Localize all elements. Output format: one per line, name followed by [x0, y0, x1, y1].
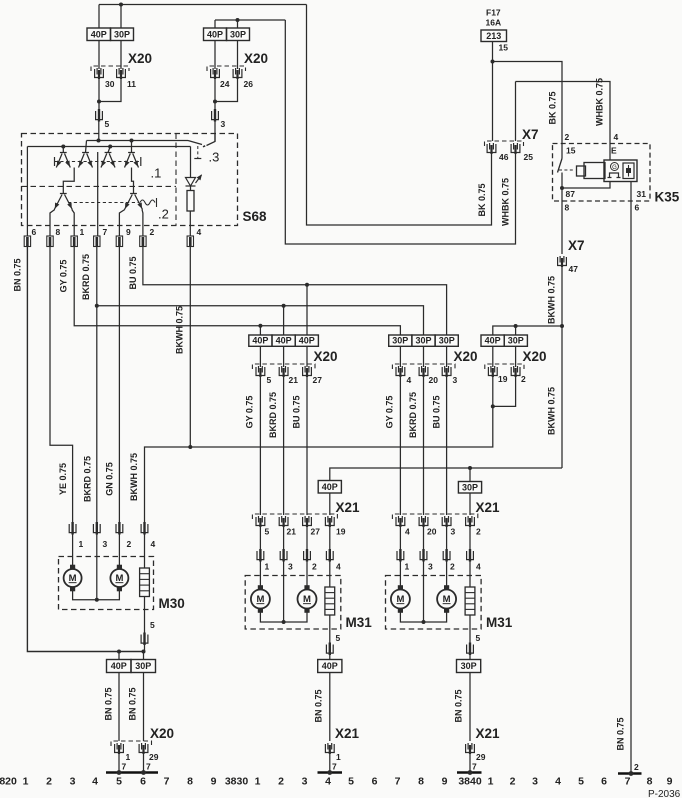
wire BKRD 0.75 from S68.7 to M30.3 (line A) [96, 247, 98, 525]
svg-text:6: 6 [635, 203, 640, 213]
connector X20 pins 4 20 3 [392, 364, 455, 369]
S68 plug pin 6 [24, 236, 30, 247]
svg-text:30P: 30P [415, 336, 431, 346]
junction S68.7 branch [95, 304, 99, 308]
connector code 40P below M31 [329, 655, 331, 660]
svg-text:40P: 40P [91, 29, 107, 39]
svg-text:BN 0.75: BN 0.75 [314, 689, 324, 722]
connector X21 pins 4 20 3 2 [392, 514, 477, 519]
svg-text:2: 2 [312, 562, 317, 572]
wire line C drop to 40P [306, 285, 308, 335]
svg-text:6: 6 [140, 776, 146, 788]
wire X20.11 down and left [99, 79, 121, 102]
svg-text:40P: 40P [322, 661, 338, 671]
S68 switch contact cell 2 [86, 141, 87, 153]
svg-text:30P: 30P [439, 336, 455, 346]
svg-text:4: 4 [407, 375, 412, 385]
svg-text:40P: 40P [299, 336, 315, 346]
svg-text:1: 1 [23, 776, 29, 788]
mirror motor assembly M30 box [59, 557, 154, 610]
S68 selector spring squiggle [140, 198, 157, 207]
svg-text:BKWH 0.75: BKWH 0.75 [547, 387, 557, 435]
svg-text:27: 27 [313, 375, 323, 385]
wire BKRD 0.75 X20.21 to X21.21 [283, 377, 285, 515]
connector code 30P [227, 28, 250, 41]
svg-text:9: 9 [211, 776, 217, 788]
svg-text:1: 1 [488, 776, 494, 788]
wire bus to pin 6 [26, 147, 28, 237]
junction pins 19/2 [491, 404, 495, 408]
svg-text:5: 5 [336, 633, 341, 643]
wire BN 0.75 from S68.6 to ground bus [27, 247, 143, 652]
connector code 40P below M30 [107, 660, 132, 673]
svg-text:BK 0.75: BK 0.75 [548, 91, 558, 124]
svg-text:1: 1 [405, 562, 410, 572]
svg-text:1: 1 [336, 752, 341, 762]
wires X21 to M31 terminals [399, 527, 401, 551]
svg-text:M: M [303, 594, 311, 605]
svg-text:7: 7 [122, 762, 127, 772]
svg-text:7: 7 [332, 762, 337, 772]
wire BN 0.75 K35.31 to ground [630, 201, 632, 774]
svg-text:1: 1 [255, 776, 261, 788]
svg-text:40P: 40P [207, 29, 223, 39]
wire BN 0.75 M31 to X21.29 [469, 673, 471, 742]
wire heater to terminal 5 [144, 597, 146, 635]
S68 selector contact left (.2) [54, 194, 72, 210]
junction mirror select feed [560, 324, 564, 328]
junction fuse output [491, 60, 495, 64]
svg-text:6: 6 [372, 776, 378, 788]
svg-text:5: 5 [150, 620, 155, 630]
svg-text:21: 21 [289, 375, 299, 385]
S68 cell4 emitter link [132, 168, 134, 194]
svg-text:M: M [115, 573, 123, 584]
svg-text:2: 2 [150, 227, 155, 237]
svg-text:9: 9 [126, 227, 131, 237]
svg-text:4: 4 [197, 227, 202, 237]
svg-text:30P: 30P [392, 336, 408, 346]
svg-text:7: 7 [625, 776, 631, 788]
wire K35 E into pump unit [609, 144, 611, 161]
wire to ground bus junction [144, 645, 146, 652]
junction on rail [119, 3, 123, 7]
svg-text:5: 5 [116, 776, 122, 788]
svg-text:30P: 30P [461, 661, 477, 671]
wire X7.25 feed: up to ignition rail [285, 20, 515, 244]
svg-text:6: 6 [32, 227, 37, 237]
M31 motor common bus [260, 609, 307, 623]
junction line A to X20.21 [282, 304, 286, 308]
junction on rail 2 [236, 18, 240, 22]
svg-text:BU 0.75: BU 0.75 [128, 256, 138, 289]
K35 solenoid [577, 163, 606, 179]
svg-text:X7: X7 [568, 238, 585, 253]
svg-text:4: 4 [151, 539, 156, 549]
svg-text:7: 7 [395, 776, 401, 788]
wire 30P to X20 pin 11 [120, 41, 122, 70]
svg-text:WHBK 0.75: WHBK 0.75 [501, 178, 511, 226]
svg-text:5: 5 [578, 776, 584, 788]
mirror motor assembly M31 box [245, 576, 341, 630]
svg-text:5: 5 [348, 776, 354, 788]
svg-text:46: 46 [499, 152, 509, 162]
S68 illumination LED [190, 147, 192, 178]
svg-text:BKRD 0.75: BKRD 0.75 [268, 392, 278, 438]
K35 pump unit box [604, 160, 637, 182]
svg-text:11: 11 [127, 79, 136, 89]
svg-text:87: 87 [566, 189, 576, 199]
svg-text:BN 0.75: BN 0.75 [104, 687, 114, 720]
svg-text:40P: 40P [276, 336, 292, 346]
wire pump unit to terminal 87 [562, 182, 610, 189]
svg-text:5: 5 [265, 527, 270, 537]
svg-text:30: 30 [105, 79, 115, 89]
connector code 40P [295, 335, 318, 346]
wire BU 0.75 X20.3 to X21.3 [446, 377, 448, 515]
svg-text:M: M [69, 573, 77, 584]
svg-text:4: 4 [325, 776, 331, 788]
S68 supply bus from pin 5 [87, 140, 189, 142]
svg-text:3830: 3830 [225, 776, 249, 788]
svg-text:3: 3 [70, 776, 76, 788]
svg-text:S68: S68 [243, 209, 268, 224]
wire GY 0.75 from S68.1 (line B) [74, 247, 400, 336]
junction pin5 on bus [97, 139, 101, 143]
S68 internal partition vertical [175, 134, 177, 226]
wire right selector to pin 2 [141, 210, 144, 237]
S68 illumination resistor [187, 191, 194, 212]
svg-text:BN 0.75: BN 0.75 [454, 689, 464, 722]
svg-text:29: 29 [149, 752, 159, 762]
svg-text:2: 2 [127, 539, 132, 549]
junction line B to X20.5 [258, 324, 262, 328]
wire battery rail to X20 30/11 [99, 4, 307, 6]
wire BU 0.75 X20.27 to X21.27 [306, 377, 308, 515]
svg-text:30P: 30P [508, 336, 524, 346]
svg-text:4: 4 [476, 562, 481, 572]
svg-text:M30: M30 [159, 596, 185, 611]
svg-text:1: 1 [80, 227, 85, 237]
svg-text:GY 0.75: GY 0.75 [245, 396, 255, 429]
svg-text:4: 4 [555, 776, 561, 788]
S68 .3 heated-mirror contact [188, 141, 202, 145]
S68 internal partition horizontal [22, 185, 177, 187]
M30 motor 1 [64, 565, 82, 592]
wire splice to S68 pin 5 [98, 122, 100, 141]
wire fuse to K35 pin 15 (BK 0.75) [493, 62, 563, 144]
svg-text:19: 19 [498, 374, 508, 384]
wire to ground [329, 754, 331, 773]
wire left selector to pin 1 [72, 210, 74, 237]
wires 40P boxes to X20 pins [259, 346, 261, 367]
wire X7.46 feed: up right side to battery rail [307, 5, 492, 226]
connector code 30P [435, 335, 458, 346]
svg-text:2: 2 [46, 776, 52, 788]
S68 plug pin 9 [116, 236, 122, 247]
M31 motor 2 [437, 585, 456, 613]
svg-text:BKWH 0.75: BKWH 0.75 [547, 276, 557, 324]
svg-text:M31: M31 [346, 615, 373, 630]
S68 plug pin 7 [94, 236, 100, 247]
connector code 30P below M30 [131, 660, 156, 673]
svg-text:30P: 30P [114, 29, 130, 39]
svg-text:1: 1 [126, 752, 131, 762]
svg-text:GY 0.75: GY 0.75 [59, 260, 69, 293]
M31 motor 2 [298, 585, 317, 613]
connector X20 pins 1 and 29 [111, 741, 152, 746]
connector pin X21.1 [325, 743, 334, 754]
S68 selector link dashed [68, 202, 139, 204]
svg-text:X20: X20 [150, 726, 174, 741]
K35 generator symbol G [608, 163, 621, 178]
wire line A drop to 40P [283, 306, 285, 335]
svg-text:X21: X21 [476, 500, 501, 515]
junction ground bus to 30P [142, 650, 146, 654]
svg-text:X7: X7 [522, 127, 539, 142]
M31 motor common bus [400, 609, 446, 623]
svg-text:31: 31 [637, 189, 647, 199]
junction pins 30/11 [97, 100, 101, 104]
M30 motor common bus [73, 587, 120, 600]
line A to X20 group [97, 306, 424, 335]
svg-text:8: 8 [187, 776, 193, 788]
svg-text:30P: 30P [462, 482, 478, 492]
svg-text:26: 26 [244, 79, 254, 89]
fuse F17 16A [481, 8, 508, 53]
svg-text:3: 3 [221, 119, 226, 129]
svg-text:7: 7 [164, 776, 170, 788]
K35 actuator dashed link [559, 169, 575, 171]
S68 plug pin 2 [140, 236, 146, 247]
wire X20.2 down and left [493, 377, 516, 406]
connector code 30P [412, 335, 435, 346]
svg-text:9: 9 [442, 776, 448, 788]
svg-text:3: 3 [428, 562, 433, 572]
S68 switch contact cell 4 [131, 141, 133, 153]
junction common [422, 620, 426, 624]
svg-text:X20: X20 [523, 349, 547, 364]
wire YE 0.75 from S68.8 to M30.1 [50, 247, 73, 525]
M30 heater element [140, 568, 150, 597]
S68 return bus to pin 6 [27, 146, 190, 148]
wire X20.30 down [98, 79, 100, 102]
connector code 30P below M31 [469, 655, 471, 660]
svg-text:2: 2 [634, 762, 639, 772]
junction to 30P [514, 324, 518, 328]
svg-text:4: 4 [336, 562, 341, 572]
svg-text:20: 20 [429, 375, 439, 385]
svg-text:4: 4 [614, 132, 619, 142]
svg-text:5: 5 [476, 633, 481, 643]
svg-text:GY 0.75: GY 0.75 [385, 396, 395, 429]
junction to right X21 [468, 466, 472, 470]
junction cell1 [61, 145, 65, 149]
K35 switch contact [561, 144, 563, 159]
svg-text:7: 7 [146, 762, 151, 772]
svg-text:X20: X20 [128, 51, 152, 66]
wire rail2 to 30P box [237, 20, 239, 28]
svg-text:BKRD 0.75: BKRD 0.75 [81, 254, 91, 300]
svg-text:25: 25 [524, 152, 534, 162]
wire GY 0.75 X20.4 to X21.4 [399, 377, 401, 515]
wires 30P boxes to X20 pins [399, 346, 401, 367]
wire X20.19 down [492, 377, 494, 406]
S68 plug pin 4 [187, 236, 193, 247]
svg-text:7: 7 [103, 227, 108, 237]
svg-text:.2: .2 [158, 207, 169, 222]
svg-text:8: 8 [565, 203, 570, 213]
S68 plug pin 8 [47, 236, 53, 247]
M31 motor 1 [251, 585, 270, 613]
svg-text:X20: X20 [244, 51, 268, 66]
connector code 40P [481, 335, 504, 346]
splice plug 5 [98, 102, 100, 112]
svg-text:3: 3 [103, 539, 108, 549]
M31 motor 1 [391, 585, 410, 613]
connector code 30P at X21.2 [458, 482, 481, 494]
junction common [95, 598, 99, 602]
svg-text:2: 2 [278, 776, 284, 788]
wire ignition rail to X20 24/26 [215, 19, 285, 21]
wire 40P to X20 pin 30 [98, 41, 100, 70]
wire splice to S68 .3 contact [214, 122, 216, 142]
mirror motor assembly M31 right box [386, 576, 482, 630]
svg-text:8: 8 [56, 227, 61, 237]
wire BKRD 0.75 X20.20 to X21.20 [423, 377, 425, 515]
svg-text:3: 3 [453, 375, 458, 385]
connector X20 pins 24 and 26 [207, 66, 246, 71]
svg-text:E: E [611, 146, 617, 156]
svg-text:BN 0.75: BN 0.75 [13, 258, 23, 291]
svg-text:BU 0.75: BU 0.75 [292, 395, 302, 428]
connector X20 pins 5 21 27 [252, 364, 315, 369]
ground bar M30 [106, 771, 158, 773]
wires into M30 box [72, 534, 74, 569]
svg-text:K35: K35 [655, 190, 680, 205]
S68 centre output to pin 7 [97, 152, 99, 236]
junction cell4 on bus [130, 139, 134, 143]
switch unit S68 box [22, 134, 238, 226]
wires into M30: terminal plugs 1 3 2 4 [69, 522, 76, 535]
svg-text:X20: X20 [454, 349, 478, 364]
svg-text:M: M [396, 594, 404, 605]
svg-text:5: 5 [267, 375, 272, 385]
junction line C to X20.27 [305, 283, 309, 287]
wire to ground [469, 754, 471, 773]
junction at 87 [560, 186, 564, 190]
wire GN 0.75 from S68.9 to M30.2 [118, 247, 120, 525]
wire rail2 to 40P box [214, 20, 216, 28]
relay K35 box [553, 144, 651, 202]
svg-text:3: 3 [288, 562, 293, 572]
svg-text:GN 0.75: GN 0.75 [105, 462, 115, 496]
svg-text:BKWH 0.75: BKWH 0.75 [129, 453, 139, 501]
svg-text:24: 24 [220, 79, 230, 89]
svg-text:X21: X21 [336, 500, 361, 515]
S68 selector contact right (.2) [125, 194, 143, 210]
junction cell3 [108, 145, 112, 149]
svg-text:G: G [612, 165, 617, 171]
wire heater to terminal 5 [329, 615, 331, 645]
M31 plug 5 [326, 643, 333, 656]
M31 heater element [325, 587, 335, 615]
svg-text:9: 9 [667, 776, 673, 788]
wires into M31 right [399, 561, 401, 590]
svg-text:27: 27 [311, 527, 321, 537]
connector code 40P at X21.19 [318, 481, 341, 494]
junction common [282, 620, 286, 624]
svg-text:6: 6 [601, 776, 607, 788]
wire 40P to X20 pin 24 [214, 41, 216, 70]
wire X20.26 down and left [215, 79, 238, 102]
svg-text:40P: 40P [252, 336, 268, 346]
svg-text:X21: X21 [476, 726, 501, 741]
M30 plug 5 [141, 633, 148, 646]
wire BKWH to X20 19/2 [190, 406, 493, 447]
svg-text:M: M [443, 594, 451, 605]
wire GY 0.75 X20.5 to X21.5 [259, 377, 261, 515]
svg-text:X20: X20 [314, 349, 338, 364]
wire X20.24 down [214, 79, 216, 102]
svg-text:BKRD 0.75: BKRD 0.75 [408, 392, 418, 438]
M31 plug 5 [467, 643, 474, 656]
S68 contact rail dashed (.1) [55, 161, 141, 163]
wire K35 E to X7 pin 25 (WHBK 0.75) [515, 82, 517, 142]
wire BN 0.75 to X20.1 [118, 673, 120, 742]
connector pin X21.29 [466, 743, 475, 754]
junction ground bus to 40P [117, 650, 121, 654]
svg-text:21: 21 [287, 527, 297, 537]
svg-text:30P: 30P [230, 29, 246, 39]
connector code 40P [87, 28, 111, 41]
svg-text:4: 4 [405, 527, 410, 537]
svg-text:3840: 3840 [458, 776, 482, 788]
svg-text:15: 15 [566, 146, 576, 156]
M31 terminal plugs 1 3 2 4 [257, 549, 264, 562]
connector code 40P [249, 335, 272, 346]
wires to X20 pins 19 2 [492, 346, 494, 367]
wire BN 0.75 M31 to X21.1 [329, 673, 331, 742]
connector pin X7 47 [558, 256, 567, 267]
svg-text:40P: 40P [322, 482, 338, 492]
svg-text:BK 0.75: BK 0.75 [477, 183, 487, 216]
svg-text:3: 3 [532, 776, 538, 788]
svg-text:8: 8 [647, 776, 653, 788]
svg-text:20: 20 [427, 527, 437, 537]
svg-text:30P: 30P [135, 661, 151, 671]
svg-text:8: 8 [418, 776, 424, 788]
svg-text:1: 1 [265, 562, 270, 572]
wire BN 0.75 to X20.29 [143, 673, 145, 742]
wire down to X21 branch line [561, 326, 563, 468]
svg-text:3: 3 [302, 776, 308, 788]
connector code 30P [389, 335, 412, 346]
svg-text:.1: .1 [151, 166, 162, 181]
svg-text:16A: 16A [486, 18, 502, 28]
M30 motor 2 [110, 565, 128, 592]
wire F17 to X7 pin 46 [492, 42, 494, 142]
svg-text:M: M [256, 594, 264, 605]
wire line B drop to 40P [259, 326, 261, 335]
svg-text:19: 19 [336, 527, 346, 537]
wire BKWH to M30.4 [145, 447, 191, 524]
junction pins 24/26 [213, 100, 217, 104]
wire heater to terminal 5 [469, 615, 471, 645]
svg-text:2: 2 [565, 132, 570, 142]
svg-text:.3: .3 [209, 150, 220, 165]
connector X21 pins 5 21 27 19 [252, 514, 337, 519]
